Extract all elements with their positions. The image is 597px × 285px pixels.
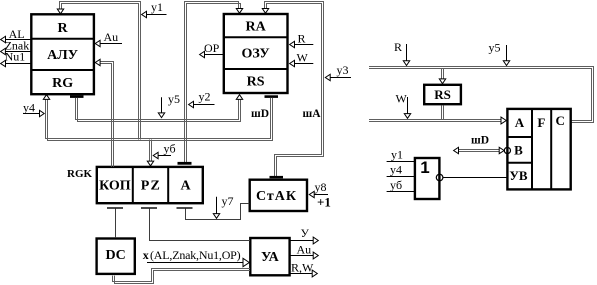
wire шА vertical bus + arrow into RA top + feed to СтАК: [265, 2, 324, 177]
signal R,W output: [290, 273, 313, 275]
svg-text:УА: УА: [261, 250, 280, 265]
svg-text:шD: шD: [251, 108, 269, 120]
svg-text:RS: RS: [434, 87, 451, 102]
svg-text:Au: Au: [297, 242, 312, 256]
wire bus1 to RS: [441, 69, 443, 79]
svg-text:шD: шD: [471, 135, 489, 147]
wire gate output to УВ: [443, 177, 507, 179]
svg-text:y5: y5: [489, 41, 501, 55]
bus W horizontal into A: [369, 119, 501, 121]
svg-text:1: 1: [420, 158, 429, 177]
arrow into АЛУ right side: [95, 59, 100, 65]
block ALU (R / АЛУ / RG): [31, 14, 94, 94]
bus tap bar under А: [177, 207, 193, 208]
svg-text:R: R: [58, 21, 69, 36]
svg-text:+1: +1: [317, 195, 331, 210]
svg-text:R: R: [394, 40, 402, 54]
wire DC to УА: [113, 269, 251, 282]
svg-text:RGK: RGK: [67, 168, 93, 180]
wire КОП to АЛУ second input: [99, 62, 114, 167]
signal y1: [146, 14, 167, 16]
svg-text:Au: Au: [104, 30, 119, 44]
wire RS to bus2: [441, 105, 443, 119]
arrow into RS bottom: [236, 95, 242, 100]
svg-text:W: W: [396, 92, 408, 106]
svg-text:ОЗУ: ОЗУ: [241, 47, 269, 62]
svg-text:yб: yб: [164, 141, 176, 155]
svg-text:y8: y8: [315, 180, 327, 194]
signal y7: [216, 197, 218, 214]
arrow into RA top (left): [236, 9, 242, 14]
signal У output: [290, 240, 314, 242]
wire RS output bus to RG input: [46, 98, 271, 139]
svg-text:RA: RA: [245, 19, 266, 34]
svg-text:(AL,Znak,Nu1,OP): (AL,Znak,Nu1,OP): [150, 248, 241, 262]
gate output circle: [436, 174, 443, 181]
svg-text:АЛУ: АЛУ: [47, 48, 78, 63]
svg-text:x: x: [143, 248, 149, 262]
bus tap bar under АЛУ (RG output): [70, 95, 84, 98]
block DC: [97, 239, 135, 274]
svg-text:УВ: УВ: [509, 168, 528, 183]
svg-text:OP: OP: [204, 41, 220, 55]
wire А to СтАК: [186, 204, 250, 220]
signal y5 (right): [506, 45, 508, 61]
svg-text:СтАК: СтАК: [256, 189, 297, 204]
svg-text:R,W: R,W: [291, 260, 314, 274]
block RGK (КОП / PZ / А): [97, 167, 203, 203]
OR gate 1: [415, 158, 440, 199]
signal Au output: [290, 255, 314, 257]
svg-text:DC: DC: [105, 248, 125, 263]
signal Nu1: [5, 63, 32, 65]
svg-text:y4: y4: [390, 163, 402, 177]
block A/F/C with B and УВ: [507, 109, 570, 189]
signal W into ОЗУ: [294, 63, 314, 65]
signal W (right): [407, 97, 409, 114]
svg-text:y7: y7: [222, 194, 234, 208]
arrow into R top: [57, 9, 63, 14]
signal y6: [158, 155, 172, 157]
bus шD bidirectional into B: [458, 149, 500, 151]
svg-text:C: C: [556, 113, 565, 128]
svg-text:W: W: [297, 51, 309, 65]
wire RG output to шD bus and RS input: [76, 98, 239, 120]
svg-text:y1: y1: [391, 147, 403, 161]
signal y5: [161, 97, 163, 113]
svg-text:y5: y5: [168, 92, 180, 106]
arrow into PZ top: [147, 161, 153, 166]
signal y6 (right): [387, 191, 415, 193]
svg-text:B: B: [514, 143, 523, 158]
svg-text:R: R: [298, 31, 306, 45]
bus R/y5 top horizontal, corner to C column: [369, 67, 594, 123]
svg-text:КОП: КОП: [99, 178, 131, 193]
signal R (right): [406, 44, 408, 61]
signal OP: [204, 54, 224, 56]
signal AL: [5, 39, 32, 41]
svg-text:PZ: PZ: [141, 178, 161, 193]
signal y1 (right): [387, 161, 415, 163]
signal x(AL,Znak,Nu1,OP) into УА: [147, 262, 243, 264]
signal y3: [330, 77, 352, 79]
bus tap bar under КОП: [107, 207, 123, 208]
inverter circle at B input: [504, 147, 510, 153]
svg-text:A: A: [515, 115, 525, 130]
signal Au into АЛУ: [99, 43, 122, 45]
bus tap bar on СтАК top: [270, 176, 284, 178]
wire PZ to УА: [150, 209, 251, 241]
block УА: [250, 238, 289, 275]
block СтАК: [250, 180, 307, 211]
bus tap bar on А register top: [178, 162, 192, 165]
signal Znak: [4, 51, 32, 53]
svg-text:F: F: [537, 115, 545, 130]
svg-text:А: А: [180, 178, 191, 193]
svg-text:Nu1: Nu1: [5, 49, 26, 63]
svg-text:y4: y4: [23, 100, 35, 114]
wire КОП to DC: [115, 209, 117, 238]
svg-text:y2: y2: [199, 90, 211, 104]
block RS (right): [424, 85, 461, 104]
signal y4 (right): [387, 176, 415, 178]
svg-text:RS: RS: [247, 75, 265, 90]
wire y1 bus: vertical x139 down to RS-output bus, top feedback into R: [60, 2, 141, 140]
svg-text:У: У: [301, 226, 310, 240]
signal y8 into СтАК: [314, 194, 329, 196]
bus tap bar under RS: [265, 95, 279, 98]
block memory (RA / ОЗУ / RS): [224, 14, 288, 93]
arrow into RG bottom: [43, 95, 49, 100]
wire шD vertical bus + arrow into RA top: [185, 2, 239, 163]
signal y4: [23, 113, 41, 115]
signal R into ОЗУ: [294, 44, 314, 46]
svg-text:y3: y3: [337, 63, 349, 77]
bus tap bar under PZ: [141, 207, 157, 208]
svg-text:шА: шА: [302, 108, 321, 120]
wire bus drop into PZ: [149, 140, 151, 162]
svg-text:y1: y1: [151, 0, 163, 14]
signal y2: [193, 104, 215, 106]
svg-text:RG: RG: [52, 76, 73, 91]
arrow into RA top (right): [262, 9, 268, 14]
svg-text:yб: yб: [390, 178, 402, 192]
